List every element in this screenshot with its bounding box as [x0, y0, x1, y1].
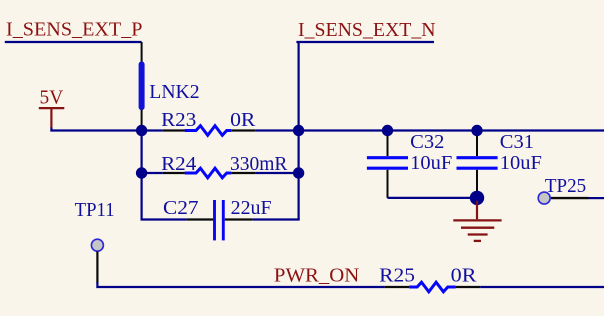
wire C27 right stub — [253, 218, 300, 220]
wire TP25 to sheet edge — [589, 197, 604, 199]
resistor R24 left pin — [163, 172, 185, 174]
wire net I_SENS_EXT_P horizontal — [5, 41, 142, 43]
wire R24 right stub — [256, 172, 299, 174]
wire net I_SENS_EXT_N horizontal — [296, 41, 434, 43]
svg-text:I_SENS_EXT_P: I_SENS_EXT_P — [6, 19, 143, 41]
junction dot R24 left — [136, 167, 147, 178]
svg-text:0R: 0R — [230, 109, 256, 131]
capacitor C32 bottom pin — [387, 170, 389, 198]
svg-text:LNK2: LNK2 — [149, 81, 199, 103]
test point TP25 pin — [551, 197, 589, 199]
wire right rail vertical — [298, 131, 300, 220]
junction dot C31 top — [471, 125, 482, 136]
svg-text:TP25: TP25 — [545, 175, 586, 197]
resistor R24 right pin — [231, 172, 256, 174]
wire C32 bottom to C31 bottom — [388, 197, 478, 199]
svg-text:R23: R23 — [161, 109, 196, 131]
ground bar 2 — [461, 227, 494, 229]
wire main rail right section (R23 right to sheet edge) — [256, 129, 604, 131]
resistor R23 right pin — [231, 129, 256, 131]
junction dot R24 right — [293, 167, 304, 178]
svg-text:R24: R24 — [161, 153, 196, 175]
svg-text:C31: C31 — [500, 131, 534, 153]
test point TP11 pin — [96, 251, 98, 283]
link LNK2 pin 2 — [141, 110, 143, 127]
svg-text:I_SENS_EXT_N: I_SENS_EXT_N — [298, 19, 436, 41]
svg-text:C32: C32 — [410, 131, 444, 153]
test point TP11 pad circle — [91, 239, 103, 251]
capacitor C27 plate 2 — [222, 200, 225, 240]
junction dot R23 right — [293, 125, 304, 136]
capacitor C31 plate 2 — [457, 167, 498, 170]
power port 5V bar symbol — [39, 107, 65, 109]
resistor R24 body zigzag — [185, 168, 232, 178]
junction dot ground node — [470, 191, 484, 205]
wire I_SENS_EXT_N vertical drop to main rail — [298, 42, 300, 131]
capacitor C31 bottom pin — [476, 170, 478, 192]
svg-text:10uF: 10uF — [410, 152, 452, 174]
link LNK2 body bar — [139, 64, 145, 107]
junction dot R23 left — [136, 125, 147, 136]
wire PWR_ON left section from TP11 — [97, 282, 384, 287]
wire left rail vertical — [141, 125, 143, 220]
capacitor C31 top pin — [476, 132, 478, 156]
resistor R23 body zigzag — [185, 126, 232, 136]
svg-text:330mR: 330mR — [230, 153, 288, 175]
capacitor C32 plate 2 — [367, 167, 408, 170]
svg-text:0R: 0R — [451, 265, 478, 287]
wire R24 left stub — [142, 172, 163, 174]
resistor R25 body zigzag — [409, 282, 455, 292]
svg-text:10uF: 10uF — [500, 152, 542, 174]
capacitor C27 plate 1 — [213, 200, 216, 240]
resistor R25 left pin — [385, 286, 410, 288]
wire C27 left stub — [141, 218, 187, 220]
capacitor C31 plate 1 — [457, 156, 498, 159]
link LNK2 pin 1 — [141, 42, 143, 63]
test point TP25 pad circle — [538, 192, 550, 204]
capacitor C27 left pin — [187, 218, 214, 220]
capacitor C32 plate 1 — [367, 156, 408, 159]
junction dot C32 top — [382, 125, 393, 136]
ground stem — [476, 201, 478, 219]
svg-text:PWR_ON: PWR_ON — [274, 265, 359, 287]
wire 5V to left rail and R23 left lead-in — [51, 128, 162, 131]
ground bar 3 — [468, 233, 488, 235]
resistor R23 left pin — [163, 129, 185, 131]
svg-text:TP11: TP11 — [75, 199, 115, 221]
capacitor C27 right pin — [225, 218, 253, 220]
capacitor C32 top pin — [387, 132, 389, 156]
resistor R25 right pin — [456, 286, 481, 288]
svg-text:R25: R25 — [379, 265, 415, 287]
ground bar 4 — [474, 240, 481, 242]
power port 5V stem — [50, 108, 52, 128]
ground bar 1 — [453, 219, 501, 221]
wire PWR_ON right section to sheet edge — [480, 286, 604, 288]
svg-text:C27: C27 — [163, 197, 199, 219]
svg-text:22uF: 22uF — [231, 197, 272, 219]
svg-text:5V: 5V — [40, 87, 64, 109]
